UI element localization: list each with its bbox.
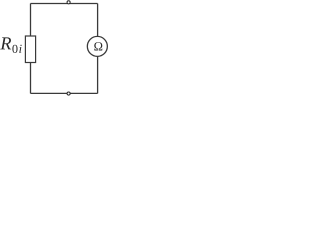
label R0i bbox=[0, 37, 21, 53]
wire left lower bbox=[30, 63, 32, 94]
wire top bbox=[31, 3, 98, 5]
ohmmeter U1 bbox=[87, 36, 107, 56]
node terminal top bbox=[67, 1, 70, 4]
wire bottom bbox=[31, 92, 98, 94]
wire right lower bbox=[97, 56, 99, 93]
wire left bbox=[30, 4, 32, 36]
wire right upper bbox=[97, 4, 99, 37]
node terminal bottom bbox=[67, 92, 70, 95]
resistor R0i bbox=[25, 36, 35, 63]
